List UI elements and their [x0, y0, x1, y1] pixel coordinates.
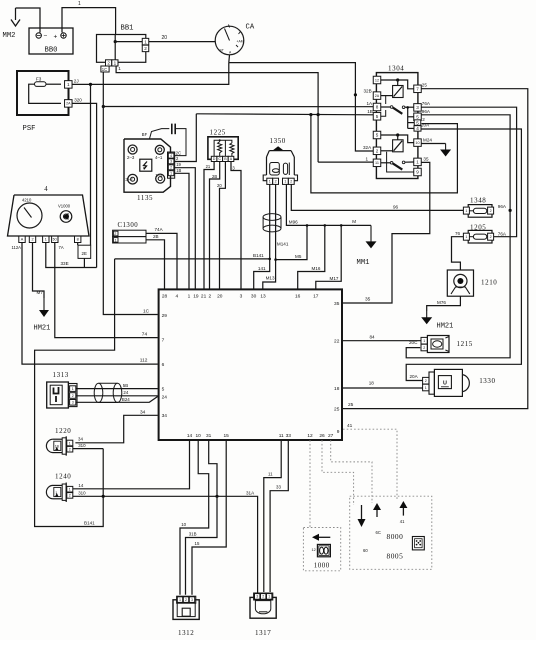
wire CA to 1304 32B/32A	[229, 63, 376, 151]
svg-text:1330: 1330	[479, 377, 495, 385]
svg-text:1: 1	[45, 238, 47, 242]
wire CA output	[228, 55, 231, 63]
svg-text:U: U	[443, 381, 447, 387]
svg-text:3: 3	[72, 401, 74, 405]
svg-text:20C: 20C	[409, 340, 418, 345]
svg-text:HM21: HM21	[437, 323, 454, 331]
label 8000	[387, 532, 404, 541]
svg-text:CA: CA	[246, 24, 255, 32]
svg-text:2: 2	[490, 209, 492, 213]
fuse 1348	[463, 197, 493, 218]
sensor 1313	[47, 371, 77, 408]
wire 25	[343, 83, 528, 409]
svg-text:10: 10	[181, 522, 186, 527]
svg-text:20: 20	[162, 35, 168, 41]
wire 76A	[422, 101, 517, 237]
pin 2J of PSF	[65, 79, 79, 89]
svg-text:1C: 1C	[102, 67, 107, 72]
svg-text:5: 5	[416, 114, 419, 119]
wire 3 to ECU pin 3	[231, 162, 241, 290]
svg-text:1000: 1000	[314, 561, 330, 569]
svg-text:12: 12	[375, 78, 379, 82]
svg-text:5O: 5O	[53, 237, 58, 241]
svg-text:84: 84	[370, 335, 376, 340]
svg-text:1A: 1A	[367, 101, 374, 106]
dashed wire pin 12 to 1000	[309, 440, 311, 527]
fuel pump assembly 1350	[263, 137, 297, 181]
diagnostic socket 1000	[303, 528, 340, 571]
svg-text:2A: 2A	[375, 94, 380, 98]
wire 84/20C	[343, 335, 421, 345]
svg-text:74: 74	[142, 331, 148, 337]
wire 76	[452, 231, 464, 270]
wire BB1 pin1 feed	[116, 66, 318, 162]
svg-text:1: 1	[115, 239, 117, 243]
connector 2E	[78, 243, 91, 268]
svg-text:76A: 76A	[498, 231, 507, 236]
svg-text:2E: 2E	[82, 251, 87, 256]
1135 tower 1-4	[155, 173, 165, 183]
svg-text:1350: 1350	[270, 137, 286, 145]
svg-text:2: 2	[208, 294, 211, 300]
svg-text:1210: 1210	[481, 279, 497, 287]
svg-text:14: 14	[187, 433, 193, 439]
arrow down in 8000	[358, 505, 369, 553]
ground MM1	[357, 225, 377, 267]
wire 20 BB1 to CA	[149, 35, 215, 42]
module 8000/8005 box	[350, 496, 432, 569]
svg-text:21: 21	[201, 294, 207, 300]
svg-text:2: 2	[31, 238, 33, 242]
instrument panel 4	[8, 186, 90, 236]
wire 2 from 1135	[174, 114, 196, 162]
svg-text:41: 41	[400, 519, 405, 524]
svg-text:33: 33	[286, 433, 292, 439]
wire 1 battery positive to BB1	[62, 1, 116, 35]
svg-text:M96: M96	[289, 219, 298, 224]
svg-text:2: 2	[376, 148, 379, 153]
panel pin 8	[75, 236, 81, 242]
connector 1317	[250, 593, 276, 637]
svg-text:24: 24	[123, 390, 128, 395]
svg-text:BB1: BB1	[121, 25, 134, 33]
wire 1A	[102, 101, 374, 108]
wire 2J	[72, 63, 229, 86]
svg-text:18: 18	[334, 386, 340, 392]
connector C1300	[113, 222, 146, 243]
svg-text:1220: 1220	[55, 427, 71, 435]
svg-text:28: 28	[162, 294, 168, 300]
svg-text:24: 24	[162, 394, 168, 400]
svg-text:M24: M24	[423, 137, 432, 142]
wire 2J branch to 2E	[90, 84, 92, 245]
svg-text:HM21: HM21	[34, 325, 51, 333]
svg-text:5B: 5B	[123, 383, 128, 388]
svg-text:35: 35	[423, 156, 429, 161]
svg-text:1: 1	[69, 441, 71, 445]
wire 1B from 1135	[174, 168, 189, 289]
svg-text:33: 33	[276, 485, 281, 490]
1304 pin 2A	[373, 92, 381, 100]
svg-text:M141: M141	[277, 241, 289, 246]
ignition module 1135	[124, 139, 171, 202]
sensor 1220	[46, 427, 72, 456]
wire 18	[343, 381, 423, 388]
ground HM21 left	[34, 298, 51, 333]
svg-text:2: 2	[490, 235, 492, 239]
1304 pin 9	[414, 168, 422, 176]
svg-text:2J: 2J	[74, 79, 79, 84]
1225 pin B	[223, 156, 229, 161]
1304 output bus	[406, 106, 414, 128]
svg-text:20A: 20A	[421, 123, 430, 128]
1135 tower 4-1	[155, 145, 164, 160]
svg-text:3: 3	[416, 105, 419, 110]
svg-text:1304: 1304	[388, 65, 404, 73]
svg-text:1: 1	[67, 82, 70, 87]
svg-text:B141: B141	[84, 521, 95, 526]
svg-text:34: 34	[162, 413, 168, 419]
wire 310 from 1220	[73, 443, 103, 449]
svg-text:3: 3	[170, 160, 172, 164]
svg-text:1313: 1313	[53, 371, 69, 379]
svg-text:16: 16	[295, 294, 301, 300]
svg-text:1: 1	[170, 171, 172, 175]
svg-text:1: 1	[144, 39, 147, 44]
svg-text:12: 12	[307, 433, 313, 439]
svg-text:C1300: C1300	[118, 222, 139, 229]
svg-text:1: 1	[72, 387, 74, 391]
1135 connector pins	[168, 152, 175, 178]
arrow up 6C in 8000	[373, 503, 381, 535]
1350 left connector	[267, 178, 279, 184]
svg-text:10: 10	[415, 141, 419, 145]
svg-text:1: 1	[114, 61, 117, 66]
svg-text:4: 4	[416, 126, 419, 131]
svg-text:1: 1	[423, 339, 425, 343]
svg-text:1: 1	[188, 294, 191, 300]
svg-text:1225: 1225	[210, 129, 226, 137]
svg-text:96A: 96A	[422, 109, 431, 114]
svg-text:21: 21	[206, 164, 211, 169]
sensor 1210	[447, 270, 497, 296]
wire M16	[298, 225, 325, 289]
dashed wire pin 27 to 8000	[331, 440, 372, 503]
svg-text:5: 5	[376, 114, 379, 119]
panel pin 50	[52, 236, 64, 250]
svg-text:76: 76	[455, 231, 461, 236]
svg-text:34: 34	[78, 437, 83, 442]
svg-text:20A: 20A	[410, 374, 419, 379]
svg-text:20: 20	[217, 294, 223, 300]
svg-text:1: 1	[425, 386, 427, 390]
svg-text:2: 2	[69, 447, 71, 451]
svg-text:1: 1	[366, 157, 369, 162]
wire 2 loop	[311, 115, 458, 193]
svg-text:−: −	[44, 33, 48, 40]
fuse box PSF	[17, 71, 69, 133]
ignition switch CA	[215, 24, 255, 55]
svg-text:10: 10	[196, 433, 202, 439]
wire 35	[343, 156, 430, 303]
svg-text:34: 34	[140, 409, 146, 415]
sensor 1240	[46, 473, 72, 503]
relay contact S2	[381, 152, 414, 172]
svg-text:2: 2	[114, 232, 116, 236]
svg-text:1: 1	[118, 66, 121, 71]
wire 15 to 1312	[192, 440, 226, 595]
1225 pin A	[228, 156, 234, 161]
svg-text:9: 9	[416, 170, 419, 175]
svg-text:BB0: BB0	[45, 47, 58, 55]
wire M5	[276, 225, 307, 259]
wire 21	[204, 162, 214, 290]
wire 11 to 1317	[264, 440, 281, 592]
svg-text:7A: 7A	[59, 245, 64, 250]
wire 31/31B to 1312	[186, 440, 218, 595]
wire 112 to ECU pin 6	[22, 243, 158, 365]
svg-text:2B: 2B	[153, 234, 159, 239]
wire 20 to ECU pin 20	[217, 162, 225, 290]
wire 96	[291, 185, 464, 211]
svg-text:MM2: MM2	[3, 32, 16, 40]
svg-text:17: 17	[313, 294, 319, 300]
svg-text:1: 1	[416, 160, 419, 165]
1304 pin 7	[414, 85, 422, 93]
1304 pin 5r	[414, 120, 421, 126]
svg-text:V1000: V1000	[58, 204, 71, 209]
svg-text:30: 30	[251, 294, 257, 300]
svg-text:4: 4	[44, 186, 48, 193]
svg-text:31B: 31B	[189, 532, 197, 537]
wire 33 to 1317	[270, 440, 288, 592]
svg-text:8000: 8000	[387, 532, 404, 541]
svg-text:1215: 1215	[457, 340, 473, 348]
ECU right pin numbers	[334, 301, 340, 435]
svg-text:310: 310	[78, 490, 86, 495]
svg-text:M7: M7	[37, 290, 44, 295]
svg-text:A: A	[21, 238, 24, 242]
ECU bottom pin numbers	[187, 433, 334, 439]
battery BB0	[29, 28, 73, 55]
svg-text:2: 2	[69, 494, 71, 498]
svg-text:1B: 1B	[176, 168, 181, 173]
svg-text:PSF: PSF	[23, 125, 36, 133]
svg-text:18: 18	[369, 381, 375, 386]
svg-text:2: 2	[425, 379, 427, 383]
wire 320/33E riser	[72, 103, 97, 267]
svg-text:1135: 1135	[137, 194, 153, 202]
wire B141	[115, 185, 271, 290]
svg-text:1C: 1C	[143, 308, 150, 314]
svg-text:1: 1	[78, 1, 81, 7]
svg-text:15: 15	[224, 433, 230, 439]
1350 right connector	[283, 178, 295, 184]
svg-text:9: 9	[337, 429, 340, 435]
gauge 4210	[17, 198, 42, 229]
svg-text:4: 4	[170, 154, 172, 158]
1135 tower 2-3	[127, 145, 137, 160]
svg-text:1B: 1B	[367, 109, 373, 114]
wire 2B to ECU pin 28	[146, 234, 165, 289]
1225 pin D	[211, 156, 217, 161]
svg-text:2: 2	[275, 180, 277, 184]
fuse F3	[29, 77, 61, 104]
svg-text:60: 60	[363, 548, 368, 553]
svg-text:1: 1	[269, 180, 271, 184]
svg-text:2: 2	[423, 346, 425, 350]
ground HM21 right	[421, 311, 453, 331]
arrow up 41 in 8000	[399, 501, 407, 524]
wire 14	[73, 440, 190, 489]
1304 pin 4	[414, 126, 421, 131]
ground MM2	[3, 8, 21, 40]
svg-text:4–1: 4–1	[155, 155, 163, 160]
svg-text:7: 7	[162, 337, 165, 343]
svg-text:B24: B24	[122, 397, 130, 402]
wire M96 ground bus	[286, 185, 371, 227]
svg-text:2: 2	[72, 394, 74, 398]
junction box BB1	[97, 25, 149, 67]
1304 pin 6	[414, 113, 422, 121]
svg-text:8: 8	[376, 105, 379, 110]
svg-text:2B: 2B	[212, 174, 217, 179]
pin 320 of PSF	[65, 97, 83, 107]
panel pin A	[12, 236, 26, 250]
svg-text:25: 25	[422, 83, 428, 88]
wire M17	[316, 225, 341, 289]
svg-text:1: 1	[465, 235, 467, 239]
svg-text:26: 26	[319, 433, 325, 439]
svg-text:29: 29	[162, 313, 168, 319]
wire 33E	[46, 243, 97, 268]
svg-text:11: 11	[268, 471, 273, 476]
svg-text:5: 5	[376, 133, 379, 138]
svg-text:15: 15	[195, 541, 200, 546]
svg-text:M76: M76	[437, 300, 446, 305]
svg-text:32B: 32B	[364, 89, 372, 94]
wire 96A	[406, 109, 512, 358]
svg-text:+AM: +AM	[237, 40, 244, 44]
svg-text:20: 20	[217, 183, 222, 188]
svg-text:25: 25	[348, 402, 354, 408]
svg-text:1: 1	[268, 595, 270, 599]
fuse 1205	[463, 223, 493, 243]
svg-text:35: 35	[334, 301, 340, 307]
svg-text:27: 27	[328, 433, 334, 439]
svg-text:141: 141	[258, 266, 266, 271]
svg-text:1317: 1317	[255, 629, 271, 637]
wire 24	[76, 390, 158, 396]
svg-text:4210: 4210	[22, 198, 32, 203]
1304 pin 1r	[414, 158, 422, 166]
svg-text:11: 11	[279, 433, 284, 439]
panel pin 1	[43, 236, 49, 242]
wire 5B	[76, 383, 158, 389]
svg-text:25: 25	[334, 407, 340, 413]
svg-text:19: 19	[193, 294, 199, 300]
wire 74	[55, 243, 158, 338]
svg-text:2C: 2C	[176, 150, 181, 155]
svg-text:22: 22	[334, 339, 340, 345]
svg-text:1–4: 1–4	[155, 173, 163, 178]
injector 1330	[423, 369, 496, 396]
label 8005	[387, 552, 404, 561]
svg-text:2–3: 2–3	[127, 155, 135, 160]
svg-text:M5: M5	[295, 254, 302, 259]
wire 2B to ECU pin 2	[210, 162, 220, 290]
svg-text:35: 35	[365, 297, 371, 303]
svg-text:6C: 6C	[376, 530, 381, 535]
wire 19	[174, 162, 195, 289]
wire 10 to 1312	[180, 440, 209, 595]
1304 pin 12	[373, 76, 381, 84]
svg-text:1: 1	[465, 209, 467, 213]
svg-text:3: 3	[240, 294, 243, 300]
connector 1312	[173, 596, 199, 637]
dashed wire pin 26 to 8000	[322, 440, 354, 505]
connector 1C	[101, 66, 121, 72]
svg-text:74A: 74A	[155, 227, 164, 232]
svg-text:96: 96	[393, 204, 399, 209]
svg-text:1: 1	[69, 487, 71, 491]
svg-text:F3: F3	[36, 77, 42, 82]
icon in 8000	[412, 537, 424, 550]
1304 pin 5c	[373, 131, 381, 139]
1135 tower 3-2	[125, 174, 137, 184]
svg-text:C: C	[218, 157, 221, 161]
svg-text:2: 2	[185, 598, 187, 602]
1304 pin 5b	[373, 113, 381, 121]
svg-text:8: 8	[77, 238, 79, 242]
wire 34	[75, 409, 157, 442]
svg-text:2: 2	[170, 166, 172, 170]
relay contact S1	[381, 106, 414, 117]
svg-text:31A: 31A	[246, 490, 255, 495]
shield sleeve on 1350 wires	[263, 214, 281, 232]
svg-text:6: 6	[162, 362, 165, 368]
svg-text:5: 5	[416, 120, 419, 125]
svg-text:310: 310	[78, 443, 86, 448]
svg-text:2A: 2A	[66, 102, 71, 106]
wire 1 to 1304 pin 11	[318, 157, 373, 163]
actuator 1215	[421, 336, 473, 353]
wire M76	[427, 296, 461, 311]
svg-text:12: 12	[312, 548, 316, 552]
svg-text:19: 19	[176, 162, 181, 167]
svg-text:32A: 32A	[363, 145, 372, 150]
wire M141/M13	[263, 185, 289, 290]
1135 spark symbol	[140, 159, 152, 171]
svg-text:MM1: MM1	[357, 259, 370, 267]
svg-text:8005: 8005	[387, 552, 404, 561]
svg-text:14: 14	[78, 483, 83, 488]
svg-text:7: 7	[416, 86, 419, 91]
svg-text:3–2: 3–2	[125, 177, 133, 182]
svg-text:2: 2	[290, 180, 292, 184]
svg-text:13: 13	[260, 294, 266, 300]
svg-text:5: 5	[162, 386, 165, 392]
svg-text:41: 41	[347, 423, 353, 429]
svg-text:D: D	[213, 157, 216, 161]
1225 pin C	[217, 156, 223, 161]
relay coil K2	[381, 133, 414, 151]
svg-text:M16: M16	[312, 266, 321, 271]
wire B141 loop	[35, 259, 115, 527]
wire BB0 negative to MM2	[16, 8, 41, 28]
ECU left pin numbers	[162, 313, 168, 419]
svg-text:1: 1	[179, 598, 181, 602]
